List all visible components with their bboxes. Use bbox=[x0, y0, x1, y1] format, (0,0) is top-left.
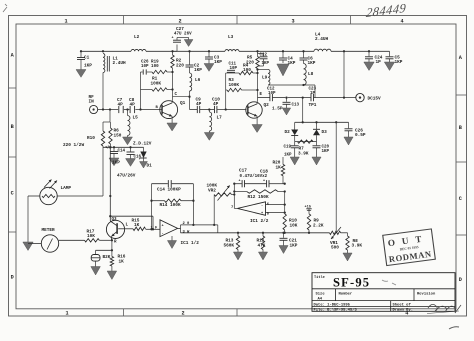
label LAMP bbox=[61, 186, 72, 191]
svg-text:1K: 1K bbox=[276, 165, 282, 170]
svg-text:Q3: Q3 bbox=[112, 218, 118, 222]
svg-text:2: 2 bbox=[178, 18, 181, 24]
svg-text:Drawn By:: Drawn By: bbox=[393, 308, 414, 313]
label File row bbox=[314, 308, 414, 313]
scan speckle top-left bbox=[3, 4, 7, 12]
resistor R3 bbox=[226, 88, 258, 91]
svg-text:-: - bbox=[261, 205, 263, 209]
svg-text:+: + bbox=[261, 212, 263, 216]
meter METER bbox=[41, 235, 58, 252]
capacitor C2 bbox=[186, 51, 194, 73]
svg-text:+: + bbox=[239, 180, 241, 184]
ground below C5 bbox=[384, 62, 394, 71]
svg-text:+: + bbox=[162, 225, 164, 229]
label R3 100K bbox=[229, 78, 240, 88]
svg-text:C11: C11 bbox=[229, 63, 237, 67]
ground below C14 bbox=[109, 158, 119, 166]
label C11 10P bbox=[229, 63, 238, 72]
label L5 bbox=[133, 116, 139, 121]
svg-text:+: + bbox=[172, 37, 174, 41]
svg-text:2.4UH: 2.4UH bbox=[113, 61, 127, 66]
resistor R12 bbox=[234, 190, 286, 193]
label L2 bbox=[134, 35, 140, 40]
wire RF input line bbox=[98, 108, 162, 110]
label C18 0.47U/16Vx2 bbox=[240, 169, 269, 179]
svg-text:L2: L2 bbox=[134, 35, 140, 40]
label 100K VR2 bbox=[207, 184, 218, 194]
resistor R19 bbox=[152, 70, 173, 73]
diode D2 bbox=[291, 122, 298, 141]
lamp LAMP bbox=[40, 180, 57, 205]
svg-text:DC15V: DC15V bbox=[368, 96, 382, 101]
label Date row bbox=[314, 303, 412, 308]
inductor L2 bbox=[131, 49, 146, 51]
label zener 12V bbox=[133, 142, 152, 147]
wire RF node down bbox=[103, 110, 110, 123]
svg-text:D1: D1 bbox=[147, 164, 153, 169]
wire R3 box left rail bbox=[225, 73, 227, 110]
ground right of C27 bbox=[184, 40, 193, 47]
label R node bbox=[114, 240, 117, 244]
label R1 100K bbox=[151, 77, 162, 87]
wire bus drop to output node bbox=[343, 51, 345, 97]
label R12 150K bbox=[248, 195, 269, 200]
stray pen mark bbox=[449, 327, 459, 329]
svg-text:1KP: 1KP bbox=[284, 154, 292, 158]
ground below lamp-meter rail bbox=[23, 242, 33, 251]
label R9 2.2K bbox=[313, 219, 324, 229]
resistor R20 bbox=[281, 157, 284, 184]
svg-text:220: 220 bbox=[176, 64, 184, 69]
label Q1 bbox=[180, 101, 186, 106]
label METER bbox=[42, 228, 56, 233]
potentiometer VR1 bbox=[330, 227, 342, 239]
svg-text:Number: Number bbox=[339, 291, 353, 296]
resistor R1 bbox=[141, 88, 173, 91]
label L9 bbox=[262, 76, 268, 81]
label R6 150 bbox=[114, 129, 122, 139]
capacitor C8 bbox=[130, 106, 135, 113]
svg-text:1KP: 1KP bbox=[194, 68, 202, 73]
label R2 220 bbox=[176, 59, 184, 69]
svg-text:0.5P: 0.5P bbox=[355, 133, 366, 138]
svg-text:1KP: 1KP bbox=[112, 161, 120, 166]
resistor R2 bbox=[171, 51, 174, 96]
zener diode D1 bbox=[139, 147, 147, 161]
ground below L5 bbox=[123, 137, 133, 145]
resistor R10 bbox=[101, 122, 104, 147]
svg-text:Q1: Q1 bbox=[180, 101, 186, 106]
label R5 220 bbox=[246, 56, 254, 66]
label L1 2.4UH bbox=[113, 57, 127, 67]
svg-text:L6: L6 bbox=[195, 78, 201, 83]
label C14 100KP bbox=[157, 188, 181, 193]
label L8 bbox=[308, 72, 314, 77]
svg-text:47U/26V: 47U/26V bbox=[117, 174, 136, 179]
svg-text:+: + bbox=[263, 180, 265, 184]
label C12 10P bbox=[267, 88, 276, 96]
svg-text:R12 150K: R12 150K bbox=[248, 195, 269, 200]
label C19 1KP bbox=[284, 146, 293, 158]
inductor L6 bbox=[190, 73, 192, 91]
label IC1 1/2 bbox=[181, 241, 200, 246]
capacitor C24 bbox=[365, 51, 373, 62]
capacitor C12 bbox=[270, 94, 273, 101]
svg-text:1K: 1K bbox=[134, 223, 140, 228]
capacitor C17 bbox=[242, 180, 244, 187]
wire Q1 output line bbox=[190, 108, 247, 110]
wire R17 to node R bbox=[99, 239, 113, 241]
label RF IN bbox=[89, 95, 95, 105]
svg-text:47U 26V: 47U 26V bbox=[174, 32, 192, 36]
svg-text:1P: 1P bbox=[376, 60, 382, 65]
svg-text:Revision: Revision bbox=[417, 291, 436, 296]
label C6 1KP bbox=[308, 57, 316, 67]
label VR1 500 bbox=[330, 241, 339, 251]
svg-text:3.9K: 3.9K bbox=[352, 244, 363, 249]
label Size A4 bbox=[316, 291, 326, 301]
label L6 bbox=[195, 78, 201, 83]
drawing frame inner border bbox=[16, 24, 456, 309]
wire lamp connections bbox=[27, 147, 103, 244]
wire C17 C18 rail bbox=[234, 183, 286, 185]
wire AGC node rail bbox=[103, 146, 144, 148]
resistor R9 bbox=[307, 214, 310, 233]
wire Q2 collector bbox=[256, 98, 258, 104]
capacitor C23 bbox=[311, 94, 314, 101]
label C7 4P bbox=[117, 98, 123, 108]
svg-text:C27: C27 bbox=[176, 27, 184, 32]
ground below R13 bbox=[233, 252, 242, 260]
label R10 10K bbox=[289, 219, 298, 229]
label Title bbox=[314, 275, 325, 280]
ground below C20 bbox=[312, 157, 321, 165]
label R4 100 bbox=[243, 64, 251, 74]
label TP1 bbox=[309, 103, 317, 108]
node A marker bbox=[105, 145, 111, 150]
svg-text:B2K: B2K bbox=[103, 255, 111, 260]
wire Q3 emitter to node R bbox=[111, 236, 113, 240]
svg-text:4P: 4P bbox=[130, 103, 136, 108]
wire Q1 collector bbox=[172, 97, 189, 103]
ground below C21 bbox=[279, 246, 288, 254]
capacitor C14 bbox=[110, 147, 118, 158]
capacitor C19 bbox=[291, 142, 299, 157]
capacitor C1 bbox=[77, 51, 85, 69]
capacitor C27 bbox=[172, 37, 189, 52]
ground below C19 bbox=[290, 157, 299, 165]
wire opamp1 input bbox=[150, 228, 160, 230]
capacitor C10 bbox=[215, 106, 217, 113]
label pin 2 bbox=[183, 222, 191, 226]
power flag +15V bbox=[305, 205, 312, 214]
label C26 R19 10P 100 bbox=[141, 61, 159, 70]
connector DC15V bbox=[356, 93, 364, 101]
svg-text:1KP: 1KP bbox=[308, 61, 316, 66]
svg-text:D: D bbox=[11, 274, 14, 280]
svg-text:10P 100: 10P 100 bbox=[141, 65, 159, 69]
capacitor C14b 100KP bbox=[168, 180, 171, 187]
resistor R5 bbox=[256, 51, 259, 97]
svg-text:C1: C1 bbox=[84, 56, 90, 61]
ground below C4 bbox=[277, 64, 289, 76]
wire top supply bus bbox=[80, 50, 390, 52]
svg-text:2.4UH: 2.4UH bbox=[315, 37, 329, 42]
svg-text:100K: 100K bbox=[151, 81, 162, 86]
svg-text:C: C bbox=[459, 196, 462, 202]
svg-text:Z.D.12V: Z.D.12V bbox=[133, 142, 152, 147]
label C3 1KP bbox=[214, 56, 222, 66]
svg-text:L7: L7 bbox=[217, 116, 223, 121]
capacitor C5 bbox=[386, 51, 394, 62]
capacitor C4 bbox=[279, 51, 287, 63]
label C4 1KP bbox=[288, 57, 296, 67]
ground below C24 bbox=[364, 62, 374, 71]
svg-text:B: B bbox=[11, 124, 14, 130]
svg-text:LAMP: LAMP bbox=[61, 186, 72, 191]
svg-text:VR2: VR2 bbox=[208, 189, 216, 194]
svg-text:10K: 10K bbox=[290, 223, 298, 228]
resistor R15 bbox=[123, 227, 152, 230]
wire Q3 tap to opamp input bbox=[110, 216, 153, 229]
svg-text:D2: D2 bbox=[285, 130, 291, 135]
label C10 4P bbox=[212, 98, 220, 108]
label R20 1K bbox=[273, 161, 282, 171]
label D3 bbox=[322, 130, 328, 135]
inductor L4 bbox=[314, 49, 331, 51]
ground below opamp IC1 1/2 bbox=[167, 236, 176, 249]
svg-text:47K: 47K bbox=[258, 243, 266, 248]
svg-text:L9: L9 bbox=[262, 76, 268, 81]
svg-text:1.5P: 1.5P bbox=[272, 107, 283, 112]
label C16 47U/26V bbox=[117, 156, 142, 179]
svg-text:D: D bbox=[459, 277, 462, 283]
svg-text:A4: A4 bbox=[318, 298, 323, 302]
resistor R7 bbox=[298, 140, 314, 143]
label D2 bbox=[285, 130, 291, 135]
title SF-95 bbox=[333, 276, 370, 290]
resistor R14 bbox=[165, 199, 182, 202]
svg-text:100K: 100K bbox=[229, 83, 240, 88]
label Number bbox=[339, 291, 353, 296]
resistor R11 bbox=[261, 233, 264, 252]
label C27 47U 26V bbox=[174, 27, 192, 37]
svg-text:METER: METER bbox=[42, 228, 56, 233]
transistor Q2 bbox=[246, 102, 262, 118]
svg-text:Date: 1-DEC-1995: Date: 1-DEC-1995 bbox=[314, 304, 351, 308]
wire meter connections bbox=[28, 240, 85, 243]
transistor Q1 bbox=[160, 101, 178, 119]
label C node bbox=[175, 93, 178, 97]
ground below Q2 bbox=[252, 125, 262, 133]
label pin 6 bbox=[267, 203, 270, 207]
svg-text:1KP: 1KP bbox=[288, 61, 296, 66]
inductor L3 bbox=[225, 50, 239, 52]
svg-text:SF-95: SF-95 bbox=[333, 276, 370, 290]
svg-text:4P: 4P bbox=[196, 102, 202, 107]
capacitor C26 bbox=[345, 122, 353, 137]
svg-text:560K: 560K bbox=[224, 243, 235, 248]
wire detector RC rail bbox=[295, 141, 317, 143]
ground below L7 bbox=[204, 133, 214, 141]
svg-text:3: 3 bbox=[291, 18, 294, 24]
handwritten signature bbox=[427, 304, 461, 313]
svg-text:C19: C19 bbox=[284, 146, 292, 150]
wire node R ladder bbox=[96, 240, 113, 256]
svg-text:2.2K: 2.2K bbox=[313, 223, 324, 228]
diode D3 bbox=[313, 122, 320, 141]
ground below C13 bbox=[282, 108, 290, 115]
svg-text:C22: C22 bbox=[260, 53, 268, 57]
svg-text:L5: L5 bbox=[133, 116, 139, 121]
capacitor C16 bbox=[127, 147, 135, 158]
label C2 1KP bbox=[194, 64, 202, 74]
label Q2 bbox=[264, 103, 270, 108]
label B node Q1 bbox=[156, 106, 159, 110]
svg-text:C20: C20 bbox=[322, 146, 330, 150]
svg-text:IC1 2/2: IC1 2/2 bbox=[250, 219, 269, 224]
ground below C26 bbox=[344, 137, 353, 145]
svg-text:L3: L3 bbox=[228, 35, 234, 40]
svg-text:100: 100 bbox=[243, 68, 251, 73]
svg-text:3.9K: 3.9K bbox=[298, 151, 309, 156]
label pin 7 bbox=[231, 206, 234, 210]
svg-text:1KP: 1KP bbox=[395, 60, 403, 65]
wire Q1 feedback box rails bbox=[141, 71, 174, 110]
svg-text:0.47U/16Vx2: 0.47U/16Vx2 bbox=[240, 174, 268, 179]
label R13 560K bbox=[224, 239, 235, 249]
wire opamp1 feedback box bbox=[150, 184, 194, 230]
inductor L5 bbox=[128, 110, 131, 138]
svg-text:4P: 4P bbox=[213, 102, 219, 107]
inductor L8 bbox=[304, 64, 307, 86]
label E node bbox=[260, 93, 263, 97]
svg-text:220 1/2W: 220 1/2W bbox=[63, 143, 84, 148]
label C14 1KP bbox=[112, 150, 126, 166]
svg-text:1KP: 1KP bbox=[214, 60, 222, 65]
capacitor C6 bbox=[300, 51, 308, 63]
label C9 4P bbox=[196, 98, 202, 108]
svg-text:220: 220 bbox=[246, 61, 254, 66]
wire diode rail bbox=[295, 121, 349, 123]
svg-text:File: B:\SF-95.45/3: File: B:\SF-95.45/3 bbox=[314, 308, 358, 313]
label L node bbox=[126, 224, 129, 228]
label Revision bbox=[417, 291, 436, 296]
svg-text:1KP: 1KP bbox=[84, 64, 92, 69]
handwritten number 284449 bbox=[364, 1, 409, 20]
label D1 bbox=[147, 164, 153, 169]
wire Q1 emitter bbox=[171, 116, 173, 123]
transistor Q3 bbox=[106, 220, 124, 238]
wire VR2 node to IC2 output bbox=[233, 183, 237, 209]
svg-text:1: 1 bbox=[65, 311, 68, 317]
svg-text:C18: C18 bbox=[260, 169, 268, 174]
wire lamp node to Q3 base bbox=[109, 147, 111, 221]
ground below C1 bbox=[76, 70, 86, 78]
label L3 bbox=[228, 35, 234, 40]
label C1 1KP bbox=[84, 56, 92, 69]
capacitor C9 bbox=[197, 106, 199, 113]
svg-text:10P: 10P bbox=[230, 67, 238, 71]
label R10 220 1/2W bbox=[63, 136, 95, 148]
wire L1 to RF input node bbox=[102, 73, 104, 111]
svg-text:C14: C14 bbox=[118, 150, 126, 154]
svg-text:C13: C13 bbox=[292, 104, 300, 108]
svg-text:500: 500 bbox=[331, 246, 339, 251]
capacitor C18 bbox=[267, 180, 269, 187]
label R15 1K bbox=[132, 219, 140, 229]
capacitor C26b bbox=[141, 69, 153, 74]
wire IC2 pin6 to R10 bbox=[266, 192, 286, 214]
label C24 1P bbox=[375, 56, 383, 66]
svg-text:Sheet of: Sheet of bbox=[393, 303, 412, 308]
capacitor C13 bbox=[283, 98, 291, 108]
label R16 1K bbox=[118, 255, 126, 265]
wire opamp1 output bbox=[178, 224, 218, 233]
svg-text:IC1 1/2: IC1 1/2 bbox=[181, 241, 200, 246]
svg-text:L8: L8 bbox=[308, 72, 314, 77]
resistor R6 bbox=[109, 122, 112, 147]
svg-text:R10: R10 bbox=[87, 136, 95, 141]
label pin 3 bbox=[183, 230, 191, 234]
svg-text:B: B bbox=[459, 125, 462, 131]
potentiometer VR2 bbox=[214, 186, 234, 225]
svg-text:IN: IN bbox=[89, 100, 95, 105]
label C23 1P bbox=[309, 88, 317, 96]
label Q3 bbox=[112, 218, 118, 222]
label C13 1.5P bbox=[272, 104, 300, 112]
svg-text:Q2: Q2 bbox=[264, 103, 270, 108]
svg-text:Size: Size bbox=[316, 291, 326, 296]
svg-text:C16: C16 bbox=[134, 156, 142, 160]
wire L6 to C9 node bbox=[188, 91, 190, 110]
capacitor C3 bbox=[205, 51, 213, 63]
svg-text:4P: 4P bbox=[118, 103, 124, 108]
label L4 2.4UH bbox=[315, 33, 329, 43]
capacitor C7 bbox=[119, 106, 123, 113]
label R8 3.9K bbox=[352, 239, 363, 249]
resistor R4 bbox=[239, 71, 258, 74]
ground below B2K bbox=[91, 267, 101, 276]
wire Q2 emitter bbox=[256, 116, 258, 124]
capacitor C20 bbox=[313, 142, 321, 157]
svg-text:C26 R19: C26 R19 bbox=[141, 61, 159, 65]
inductor L9 bbox=[258, 70, 270, 86]
label R7 3.9K bbox=[298, 147, 309, 157]
inductor L7 bbox=[209, 110, 211, 133]
ground below R8 bbox=[343, 253, 352, 261]
capacitor C11 bbox=[226, 70, 239, 73]
resistor R8 bbox=[346, 233, 349, 253]
op-amp IC1 1/2 bbox=[160, 220, 178, 237]
svg-text:Title: Title bbox=[314, 275, 325, 280]
pen tick near title bbox=[382, 280, 396, 285]
svg-text:R14 100K: R14 100K bbox=[160, 203, 181, 208]
label L7 bbox=[217, 116, 223, 121]
svg-text:C14 100KP: C14 100KP bbox=[157, 188, 181, 193]
label C20 1KP bbox=[322, 146, 330, 155]
label C26 0.5P bbox=[355, 129, 366, 139]
label B2K bbox=[103, 255, 111, 260]
wire audio bottom rail bbox=[181, 232, 348, 234]
svg-text:-: - bbox=[162, 232, 164, 236]
ground below Q1 bbox=[167, 123, 177, 131]
ground below R16 bbox=[107, 271, 117, 280]
ground below D1 bbox=[140, 162, 148, 169]
label C22 1KP bbox=[260, 53, 270, 65]
wire drop to diode rail bbox=[302, 98, 304, 123]
capacitor C21 bbox=[280, 233, 288, 246]
